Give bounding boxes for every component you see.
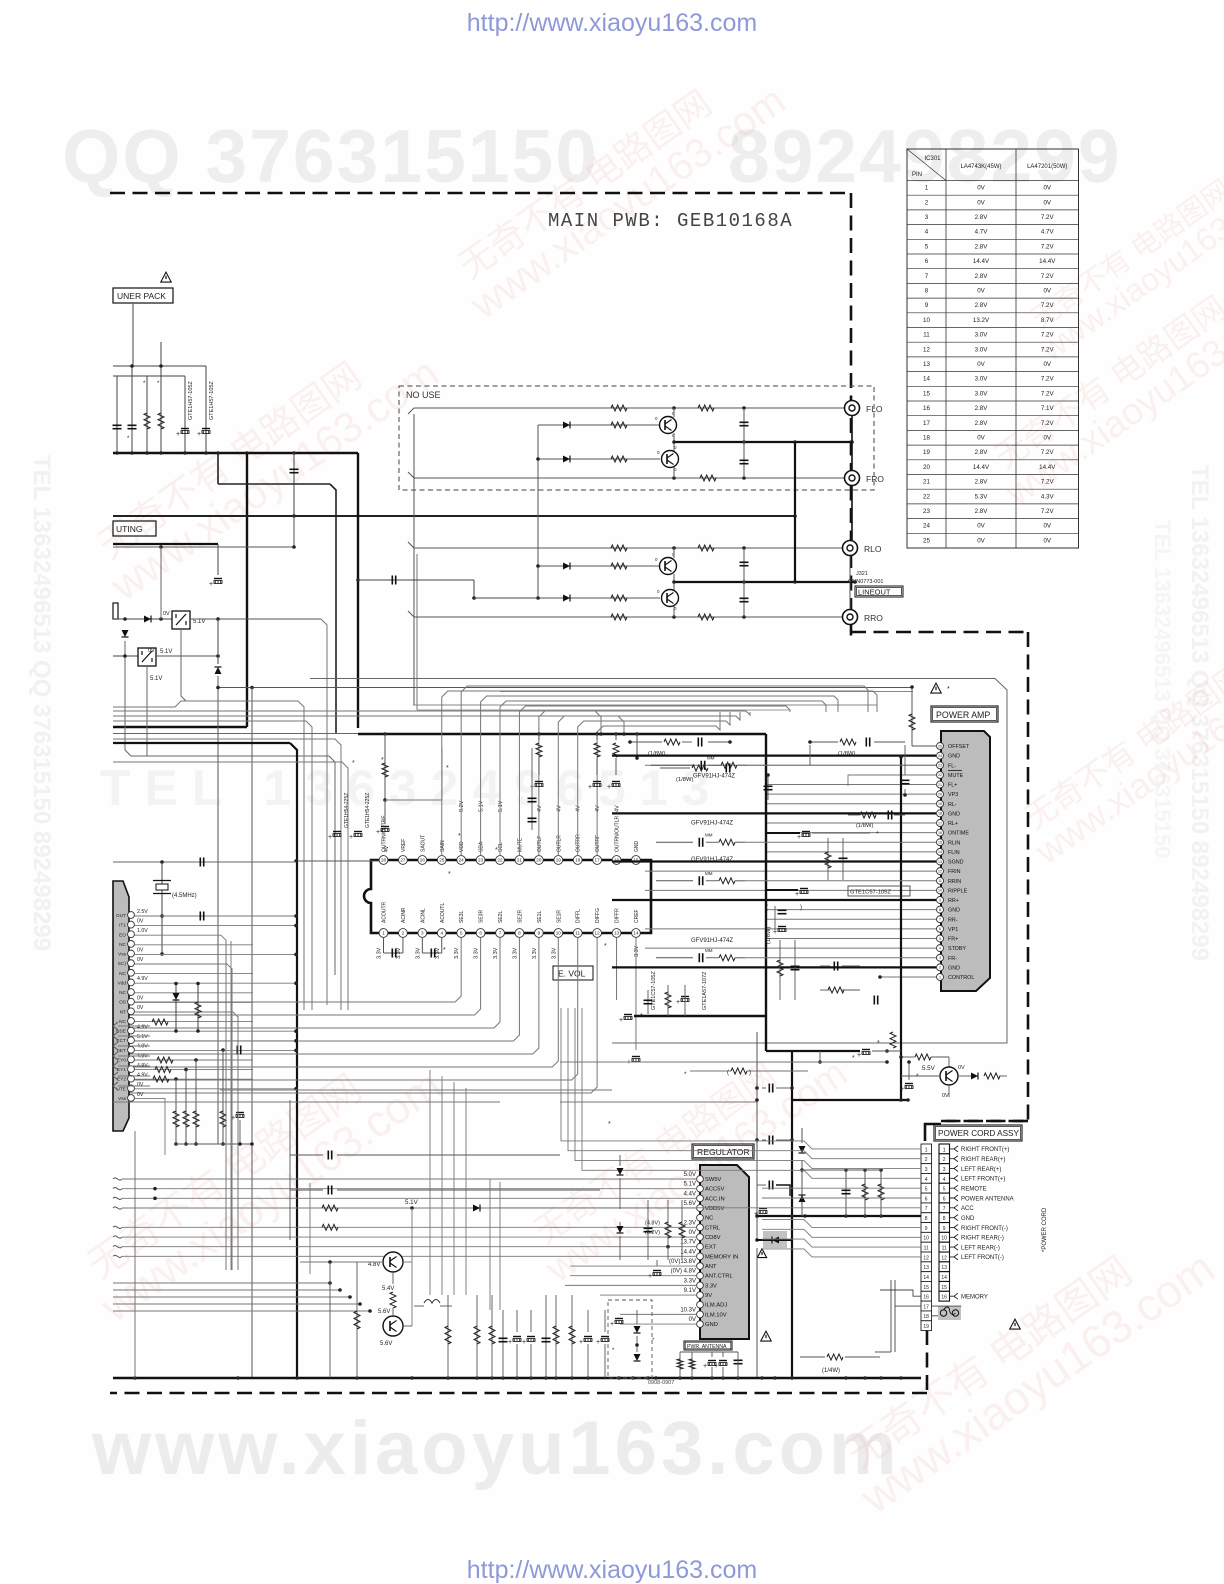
- pin 10 (RIPPLE): [937, 887, 944, 894]
- resistor R x692: [689, 1359, 695, 1369]
- resistor R (5.5V): [984, 1073, 1000, 1079]
- svg-text:SCL: SCL: [498, 842, 504, 852]
- wire regulator net 7: [113, 1236, 122, 1238]
- svg-text:18: 18: [923, 1314, 929, 1320]
- svg-text:OUTRN/OUTLR: OUTRN/OUTLR: [615, 816, 621, 853]
- pin 20 (VP3): [937, 791, 944, 798]
- snubber 1/8W c: [692, 765, 708, 771]
- svg-text:7.2V: 7.2V: [1041, 214, 1055, 221]
- vertical x218: [217, 619, 219, 664]
- connector pin 15 (board): [921, 1281, 932, 1291]
- svg-text:14: 14: [923, 1275, 929, 1281]
- vertical from row19: [926, 1329, 928, 1332]
- diode D (Vdd net): [175, 984, 177, 1032]
- resistor R (offset): [911, 687, 913, 746]
- svg-text:EY2: EY2: [117, 1077, 126, 1083]
- resistor under y1051: [819, 1051, 821, 1062]
- svg-text:4V: 4V: [556, 805, 562, 812]
- svg-text:19: 19: [556, 857, 562, 862]
- svg-text:VP3: VP3: [948, 792, 958, 798]
- verticals from stub area: [309, 1183, 311, 1274]
- capacitor C x503: [499, 1337, 508, 1339]
- svg-text:2.8V: 2.8V: [975, 302, 989, 309]
- svg-text:5.1V: 5.1V: [479, 800, 485, 812]
- svg-text:SE3L: SE3L: [459, 911, 465, 923]
- pin 8 (GND): [937, 906, 944, 913]
- connector pin 7 (cord): [939, 1203, 950, 1213]
- wire pin5: [766, 938, 936, 940]
- svg-text:7.2V: 7.2V: [1041, 479, 1055, 486]
- svg-text:RR-: RR-: [948, 917, 958, 923]
- resistor R (5.4V): [390, 1292, 396, 1308]
- wire band3-1: [113, 1289, 340, 1291]
- connector pin 6 (cord): [939, 1193, 950, 1203]
- svg-text:5: 5: [460, 930, 463, 935]
- svg-text:7.2V: 7.2V: [1041, 420, 1055, 427]
- pin 11 (DIFFL): [573, 929, 582, 938]
- svg-text:+: +: [773, 929, 777, 936]
- cap x905: [901, 779, 910, 781]
- svg-text:POWER ANTENNA: POWER ANTENNA: [961, 1196, 1014, 1202]
- svg-text:0V: 0V: [977, 537, 985, 544]
- pin 2 (GND): [937, 964, 944, 971]
- svg-text:(4.5MHz): (4.5MHz): [172, 893, 197, 899]
- pin CTRL: [697, 1224, 704, 1231]
- svg-text:FR+: FR+: [948, 937, 958, 943]
- pin SW5V: [697, 1176, 704, 1183]
- regulator IC body: [700, 1165, 749, 1339]
- pin 16 (ONTIME): [937, 829, 944, 836]
- connector pin 16 (board): [921, 1291, 932, 1301]
- svg-text:8: 8: [518, 930, 521, 935]
- svg-text:0V: 0V: [1043, 361, 1051, 368]
- diode D2 (dashed box): [634, 1354, 641, 1361]
- svg-text:27: 27: [400, 857, 406, 862]
- capacitor C x546: [542, 1337, 551, 1339]
- svg-text:17: 17: [595, 857, 601, 862]
- wire top h2: [113, 375, 185, 377]
- wire x238: [237, 1016, 239, 1270]
- connector pin 12 (board): [921, 1252, 932, 1262]
- pin 4 (STDBY): [937, 945, 944, 952]
- electrolytic C GTE1H57-105Z (2): [205, 366, 207, 453]
- diode pair x802: [801, 1160, 803, 1216]
- wire band3-4: [113, 1310, 370, 1312]
- svg-text:GTE1C57-105Z: GTE1C57-105Z: [651, 971, 657, 1010]
- wires rows16-18 left: [880, 1290, 921, 1296]
- thick wire y442: [674, 441, 852, 443]
- svg-text:*: *: [352, 760, 355, 767]
- svg-text:15: 15: [923, 1285, 929, 1291]
- svg-text:ACC5V: ACC5V: [705, 1187, 724, 1193]
- coupling networks GFV91HJ-474Z: [700, 761, 702, 770]
- pin 14 (CREF): [632, 929, 641, 938]
- svg-text:4: 4: [440, 930, 443, 935]
- wire GND pin2: [612, 966, 936, 968]
- capacitor C (reg1): [327, 1151, 329, 1160]
- wire pin20: [766, 793, 936, 795]
- wire y862 to pin28: [113, 861, 296, 863]
- svg-text:OS: OS: [119, 1000, 126, 1006]
- svg-text:17: 17: [938, 821, 942, 825]
- svg-text:5.1V: 5.1V: [150, 676, 162, 682]
- svg-text:0V: 0V: [1043, 523, 1051, 530]
- res v + cap v group x828: [827, 838, 829, 880]
- svg-text:7.2V: 7.2V: [1041, 332, 1055, 339]
- svg-text:17: 17: [923, 420, 930, 427]
- svg-text:12: 12: [923, 346, 930, 353]
- capacitor C mid: [293, 453, 295, 516]
- svg-text:(1/8W): (1/8W): [676, 777, 693, 783]
- svg-text:GFV91HJ-474Z: GFV91HJ-474Z: [693, 773, 735, 779]
- wire row17 to fuse: [932, 1305, 961, 1307]
- pin CD8V: [697, 1234, 704, 1241]
- svg-text:5.1V: 5.1V: [498, 800, 504, 812]
- svg-text:11: 11: [575, 930, 580, 935]
- pin MEMORY IN: [697, 1253, 704, 1260]
- electrolytic GTE1H54-225Z (2): [354, 831, 362, 833]
- svg-text:3.0V: 3.0V: [975, 332, 989, 339]
- electrolytic x712: [708, 1360, 716, 1362]
- svg-text:7.2V: 7.2V: [1041, 376, 1055, 383]
- svg-text:3.3V: 3.3V: [512, 947, 518, 959]
- svg-text:0V: 0V: [977, 435, 985, 442]
- svg-text:2: 2: [925, 1157, 928, 1163]
- svg-text:8: 8: [925, 288, 929, 295]
- svg-text:PWR. ANTENNA: PWR. ANTENNA: [687, 1344, 727, 1350]
- electrolytic C (y1016): [624, 1014, 632, 1016]
- resistor R (1/4W): [827, 1354, 843, 1360]
- caps column x532: [531, 748, 533, 830]
- svg-text:+: +: [797, 834, 801, 841]
- diode D (gray): [772, 1237, 779, 1244]
- wire from left IC bottom x135: [134, 1131, 136, 1378]
- cap on 2.5V line: [199, 912, 201, 921]
- ROUTING label box: [113, 521, 156, 536]
- svg-text:ACINR: ACINR: [401, 907, 407, 923]
- connector pin 14 (cord): [939, 1272, 950, 1282]
- wire y1144: [175, 1143, 252, 1145]
- right bottom components: [679, 1352, 681, 1378]
- svg-text:MAIN PWB: GEB10168A: MAIN PWB: GEB10168A: [548, 210, 793, 232]
- svg-text:E. VOL: E. VOL: [558, 969, 586, 979]
- svg-text:4.8V: 4.8V: [368, 1262, 380, 1268]
- svg-text:RIGHT FRONT(-): RIGHT FRONT(-): [961, 1226, 1008, 1232]
- svg-text:DIFFR: DIFFR: [615, 908, 621, 923]
- resistor R col1: [354, 1311, 360, 1329]
- svg-text:SE2R: SE2R: [517, 910, 523, 923]
- svg-text:5: 5: [925, 1187, 928, 1193]
- wire GND pin13: [612, 860, 936, 862]
- resistor R3 (bus): [596, 734, 598, 740]
- svg-text:9: 9: [925, 1226, 928, 1232]
- pin 3 (FR-): [937, 954, 944, 961]
- svg-text:J321: J321: [856, 571, 868, 577]
- svg-text:2: 2: [402, 930, 405, 935]
- svg-text:7.1V: 7.1V: [1041, 405, 1055, 412]
- pin 10 (SE1R): [554, 929, 563, 938]
- svg-text:5.5V: 5.5V: [922, 1065, 936, 1072]
- diode D (NO USE upper): [538, 424, 660, 426]
- vertical x538 lineout: [537, 520, 539, 598]
- svg-text:19: 19: [923, 1324, 929, 1330]
- svg-text:OUTLR: OUTLR: [556, 835, 562, 852]
- connector pin 10 (board): [921, 1232, 932, 1242]
- RLO connector: [843, 541, 858, 556]
- svg-text:8: 8: [939, 908, 941, 912]
- svg-text:GFV91HJ-474Z: GFV91HJ-474Z: [691, 938, 733, 944]
- svg-text:UTING: UTING: [116, 524, 142, 534]
- svg-text:4: 4: [939, 946, 941, 950]
- svg-text:(1/8W): (1/8W): [648, 751, 665, 757]
- svg-text:SE3R: SE3R: [479, 910, 485, 923]
- svg-text:REGULATOR: REGULATOR: [697, 1147, 750, 1157]
- connector pin 9 (cord): [939, 1223, 950, 1233]
- svg-text:19: 19: [923, 449, 930, 456]
- svg-text:(1/8W): (1/8W): [838, 751, 855, 757]
- svg-text:RIPPLE: RIPPLE: [948, 888, 968, 894]
- svg-text:14.4V: 14.4V: [1039, 464, 1056, 471]
- connector pin 2 (cord): [939, 1154, 950, 1164]
- svg-text:(: (: [766, 905, 768, 911]
- svg-text:14.4V: 14.4V: [973, 258, 990, 265]
- thick vertical x297: [113, 742, 290, 744]
- resistor R (base): [915, 1054, 931, 1060]
- svg-text:5: 5: [943, 1187, 946, 1193]
- svg-text:3.3V: 3.3V: [454, 947, 460, 959]
- svg-text:9V: 9V: [705, 1293, 712, 1299]
- pin 26 (SAOUT): [418, 856, 427, 865]
- pin 6 (SE3R): [476, 929, 485, 938]
- connector pin 2 (board): [921, 1154, 932, 1164]
- FRO wire: [408, 472, 845, 478]
- connector pin 4 (cord): [939, 1173, 950, 1183]
- svg-text:14.4V: 14.4V: [1039, 258, 1056, 265]
- connector pin 19 (board): [921, 1321, 932, 1331]
- svg-text:2.5V: 2.5V: [137, 909, 148, 915]
- pin 1 (ACOUTR): [379, 929, 388, 938]
- thick vertical x795 (2): [794, 516, 796, 582]
- svg-text:5.1V: 5.1V: [193, 619, 205, 625]
- wire band y701: [113, 701, 304, 1010]
- svg-text:13: 13: [938, 860, 942, 864]
- FRO connector: [845, 471, 860, 486]
- thick corner x766 to x792: [765, 1016, 767, 1051]
- wire chevron 3: [113, 1042, 118, 1050]
- svg-text:3: 3: [925, 1167, 928, 1173]
- svg-text:16: 16: [941, 1295, 947, 1301]
- svg-text:GND: GND: [948, 908, 960, 914]
- op IC E-VOL body: [364, 860, 651, 933]
- svg-text:1: 1: [939, 975, 941, 979]
- pin 12 (FRIN): [937, 868, 944, 875]
- connector pin 13 (board): [921, 1262, 932, 1272]
- wire net row4: [582, 1008, 921, 1178]
- svg-text:*: *: [458, 833, 461, 840]
- svg-text:EO: EO: [119, 932, 126, 938]
- wire pin6 long: [645, 928, 936, 930]
- thick vertical x901: [900, 757, 902, 1100]
- svg-text:3: 3: [925, 214, 929, 221]
- svg-text:23: 23: [478, 857, 484, 862]
- svg-text:LEFT REAR(-): LEFT REAR(-): [961, 1245, 1000, 1251]
- svg-text:FR-: FR-: [948, 956, 957, 962]
- pin 9V: [697, 1292, 704, 1299]
- svg-text:EY1: EY1: [117, 1067, 126, 1073]
- pin 23 (FL-): [937, 762, 944, 769]
- svg-text:VREF: VREF: [401, 839, 407, 852]
- svg-text:6: 6: [943, 1196, 946, 1202]
- fuse: [938, 1306, 961, 1320]
- thin vertical x757: [756, 1032, 758, 1240]
- pin ANT.CTRL: [697, 1272, 704, 1279]
- resistor R x680: [677, 1359, 683, 1369]
- RLO wire: [408, 542, 843, 548]
- svg-text:9: 9: [538, 930, 541, 935]
- svg-text:3: 3: [421, 930, 424, 935]
- svg-text:0V: 0V: [977, 199, 985, 206]
- svg-text:7.2V: 7.2V: [1041, 243, 1055, 250]
- svg-text:10: 10: [556, 930, 562, 935]
- FLO connector: [845, 401, 860, 416]
- pin 19 (OUTLR): [554, 856, 563, 865]
- svg-text:25: 25: [439, 857, 445, 862]
- svg-text:10.3V: 10.3V: [680, 1307, 696, 1313]
- svg-text:2.8V: 2.8V: [975, 420, 989, 427]
- connector pin 13 (cord): [939, 1262, 950, 1272]
- svg-text:POWER CORD ASSY: POWER CORD ASSY: [938, 1129, 1020, 1138]
- resistor R (KEY0): [157, 1057, 173, 1063]
- wire net row2: [568, 1008, 921, 1159]
- svg-text:11: 11: [938, 879, 942, 883]
- resistor R4 (bus): [615, 734, 617, 740]
- pin 22 (MUTE): [937, 771, 944, 778]
- NO USE dashed box: [399, 386, 874, 490]
- svg-text:6: 6: [925, 258, 929, 265]
- svg-text:GFV91HJ-474Z: GFV91HJ-474Z: [691, 820, 733, 826]
- svg-text:TEL 13632496513: TEL 13632496513: [100, 760, 723, 816]
- svg-text:FRO: FRO: [866, 474, 884, 484]
- svg-text:4.7V: 4.7V: [1041, 229, 1055, 236]
- svg-text:0V: 0V: [1043, 199, 1051, 206]
- electrolytic C (CREF): [632, 1056, 640, 1058]
- svg-text:4V: 4V: [384, 845, 390, 852]
- svg-text:FRIN: FRIN: [948, 869, 961, 875]
- svg-text:MM: MM: [707, 755, 715, 760]
- svg-text:MM: MM: [705, 871, 713, 876]
- dashed box with diodes: [608, 1300, 652, 1378]
- svg-text:0V: 0V: [137, 1092, 144, 1098]
- wire chevron 4: [113, 1052, 118, 1060]
- svg-text:GND: GND: [961, 1216, 975, 1222]
- svg-text:0V: 0V: [1043, 185, 1051, 192]
- svg-text:LA4743K(45W): LA4743K(45W): [960, 164, 1001, 170]
- svg-text:9.1V: 9.1V: [684, 1288, 696, 1294]
- svg-text:+: +: [197, 431, 201, 438]
- cap y788: [767, 775, 769, 800]
- wire from VDD5V row down to transistor: [411, 1208, 413, 1326]
- svg-text:MUTE: MUTE: [517, 837, 523, 852]
- capacitor C (rlo): [743, 548, 745, 617]
- RRO connector: [843, 610, 858, 625]
- pin 28 (OUTRN/OUTRF): [379, 856, 388, 865]
- svg-text:1.0V: 1.0V: [137, 928, 148, 934]
- svg-text:7.2V: 7.2V: [1041, 302, 1055, 309]
- svg-text:5.1V: 5.1V: [160, 649, 172, 655]
- pin 8 (SE2R): [515, 929, 524, 938]
- svg-text:6: 6: [939, 927, 941, 931]
- svg-text:0V: 0V: [137, 1082, 144, 1088]
- electrolytic x588: [584, 1336, 592, 1338]
- connector pin 9 (board): [921, 1223, 932, 1233]
- svg-text:16: 16: [923, 405, 930, 412]
- left IC pin wires: [135, 915, 297, 917]
- capacitor C (SET line): [236, 1046, 238, 1055]
- ecap y1216: [759, 1208, 767, 1210]
- wire chevron 2: [113, 1032, 118, 1040]
- svg-text:24: 24: [923, 523, 930, 530]
- svg-text:OFFSET: OFFSET: [948, 744, 970, 750]
- svg-text:IT1: IT1: [119, 923, 126, 929]
- svg-text:0V: 0V: [1043, 435, 1051, 442]
- svg-text:POWER AMP: POWER AMP: [936, 710, 990, 720]
- bottom components row: [356, 1262, 358, 1378]
- capacitor C2: [131, 366, 133, 453]
- wire up x161: [160, 547, 162, 619]
- wire pin17: [766, 822, 936, 824]
- resistor R (KEY1): [155, 1067, 171, 1073]
- svg-text:RR+: RR+: [948, 898, 959, 904]
- pin 17 (RL+): [937, 820, 944, 827]
- svg-text:SE1R: SE1R: [556, 910, 562, 923]
- svg-text:4V: 4V: [615, 805, 621, 812]
- svg-text:LA47201(50W): LA47201(50W): [1027, 164, 1067, 170]
- svg-text:2.8V: 2.8V: [975, 508, 989, 515]
- snubber 1/8W b: [840, 739, 856, 745]
- zener box 5.1V: [172, 611, 190, 629]
- svg-text:0V: 0V: [977, 185, 985, 192]
- svg-text:FL-: FL-: [948, 763, 956, 769]
- svg-text:GTE1H57-105Z: GTE1H57-105Z: [209, 381, 215, 420]
- svg-text:UNER PACK: UNER PACK: [117, 291, 166, 301]
- connector pin 8 (cord): [939, 1213, 950, 1223]
- connector pin 11 (cord): [939, 1242, 950, 1252]
- pin ILM.10V: [697, 1311, 704, 1318]
- svg-text:12: 12: [923, 1255, 929, 1261]
- svg-text:GND: GND: [634, 841, 640, 853]
- electrolytic C GTE1H57-105Z: [184, 376, 186, 453]
- wire pin23 long: [645, 764, 936, 766]
- pin 13 (SGND): [937, 858, 944, 865]
- svg-text:RLO: RLO: [864, 544, 882, 554]
- wire y716 to x624: [113, 716, 624, 734]
- svg-text:DIFFG: DIFFG: [595, 908, 601, 923]
- svg-text:0V: 0V: [977, 288, 985, 295]
- corner bracket: [925, 1124, 941, 1141]
- svg-text:CREF: CREF: [634, 909, 640, 923]
- dashed segment to border: [941, 1120, 1028, 1123]
- svg-text:6: 6: [479, 930, 482, 935]
- svg-text:http://www.xiaoyu163.com: http://www.xiaoyu163.com: [467, 1556, 757, 1584]
- svg-text:+: +: [648, 1273, 652, 1280]
- svg-text:14: 14: [633, 930, 639, 935]
- svg-text:5.6V: 5.6V: [378, 1309, 390, 1315]
- svg-text:OUT: OUT: [116, 913, 126, 919]
- svg-text:22: 22: [497, 857, 503, 862]
- connector pin 8 (board): [921, 1213, 932, 1223]
- svg-text:IC301: IC301: [924, 156, 941, 162]
- svg-text:GTE1A57-107Z: GTE1A57-107Z: [702, 971, 708, 1010]
